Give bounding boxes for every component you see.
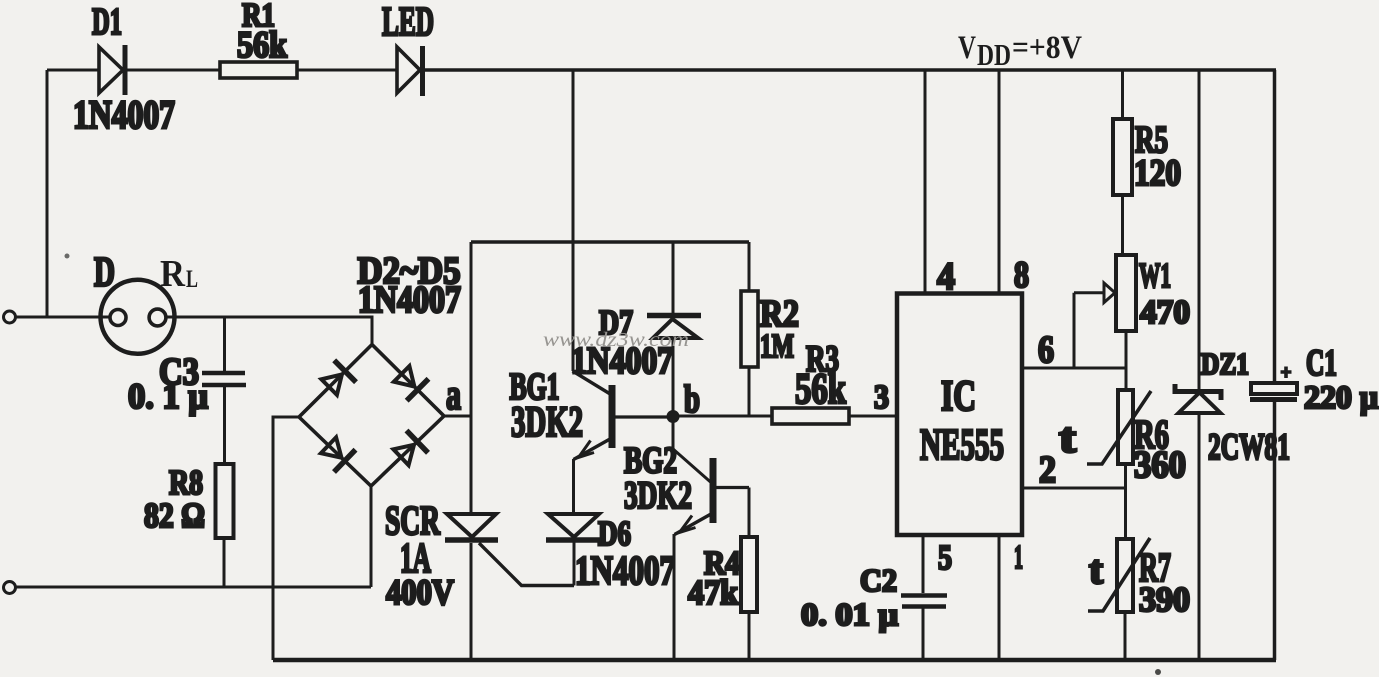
wire IC pin 1 to ground rail: [998, 535, 1001, 660]
wire R7 to ground rail: [1124, 612, 1127, 660]
IC NE555 box: [897, 294, 1022, 536]
wire DZ1 branch from VDD rail: [1198, 70, 1201, 389]
resistor R5 with leads: [1113, 70, 1132, 255]
svg-text:5: 5: [938, 538, 952, 577]
wire BG1 emitter down to D6: [572, 459, 575, 514]
svg-text:220 μ: 220 μ: [1304, 380, 1378, 416]
transistor BG2: [675, 458, 750, 535]
svg-text:3: 3: [874, 379, 889, 416]
svg-text:W1: W1: [1139, 256, 1171, 295]
resistor R2 with leads: [741, 242, 758, 416]
diode D6: [546, 514, 600, 540]
resistor R4: [741, 537, 757, 612]
svg-text:DZ1: DZ1: [1201, 346, 1249, 381]
wire C1 to ground rail: [1273, 401, 1277, 660]
wire C3 to R8: [223, 387, 226, 464]
wire BG2 emitter to ground rail: [673, 534, 676, 660]
capacitor C3: [202, 373, 246, 385]
wire node b down to BG2 collector: [673, 417, 711, 482]
wire VDD rail drop to top edge: [572, 70, 575, 242]
zener diode DZ1: [1175, 384, 1221, 413]
svg-text:V: V: [958, 30, 976, 66]
resistor R1: [220, 62, 297, 78]
svg-text:3DK2: 3DK2: [624, 474, 692, 517]
wire C1 branch from VDD rail: [1273, 70, 1277, 383]
svg-text:=+8V: =+8V: [1012, 30, 1082, 66]
wire LED to top-right corner (VDD rail): [424, 68, 1276, 72]
resistor R8: [216, 464, 234, 538]
label RL: [160, 253, 198, 295]
lower input terminal: [4, 582, 16, 594]
LED: [397, 46, 423, 96]
scan speck upper-left: [65, 254, 70, 259]
bridge diode bottom-right: [393, 431, 428, 466]
wire a-node vertical (SCR anode up to top edge): [470, 242, 473, 514]
wire R3 to IC pin 3: [849, 415, 897, 418]
wire upper terminal to socket D: [16, 316, 110, 319]
node b junction dot: [667, 410, 680, 423]
wire top edge down to BG1 collector: [572, 242, 575, 371]
svg-text:t: t: [1059, 416, 1076, 462]
wire top edge of driver box: [471, 240, 749, 243]
thermistor R6: [1087, 390, 1151, 464]
svg-text:t: t: [1089, 547, 1104, 592]
SCR: [445, 514, 574, 586]
wire R4 to ground rail: [748, 612, 751, 660]
svg-text:0. 1 μ: 0. 1 μ: [128, 376, 208, 416]
wire SCR cathode to ground rail: [470, 543, 473, 660]
svg-text:4: 4: [937, 255, 955, 298]
socket D with fuse RL: [101, 280, 175, 354]
svg-text:1N4007: 1N4007: [73, 92, 175, 137]
svg-text:R: R: [160, 253, 185, 295]
bridge diode top-right: [394, 366, 429, 401]
svg-text:1N4007: 1N4007: [575, 547, 675, 593]
wire D1 to R1: [127, 69, 220, 72]
capacitor C1 electrolytic: [1250, 367, 1297, 400]
wire R8 to lower terminal line: [223, 538, 226, 587]
svg-text:www.dz3w.com: www.dz3w.com: [543, 329, 689, 351]
svg-text:a: a: [446, 372, 461, 419]
svg-text:1: 1: [1014, 539, 1023, 576]
svg-text:470: 470: [1140, 294, 1190, 331]
wire W1 to R6: [1125, 331, 1128, 390]
svg-text:56k: 56k: [237, 25, 287, 66]
svg-text:L: L: [186, 266, 198, 293]
svg-text:120: 120: [1134, 153, 1181, 194]
wire D6 cathode to SCR gate: [573, 542, 576, 586]
wire C3 upper lead: [223, 317, 226, 371]
svg-text:NE555: NE555: [920, 420, 1004, 469]
node a wire: [444, 415, 471, 418]
transistor BG1: [573, 371, 669, 460]
potentiometer W1: [1074, 255, 1136, 368]
wire node b to R3 (through R2 tap): [679, 415, 772, 418]
svg-text:390: 390: [1139, 580, 1190, 619]
svg-text:2CW81: 2CW81: [1208, 427, 1290, 468]
svg-text:D: D: [94, 250, 115, 296]
svg-text:82 Ω: 82 Ω: [144, 496, 205, 535]
wire bridge bottom vertex to lower terminal line: [370, 486, 373, 587]
diode D7: [647, 242, 701, 412]
wire IC pin 2 to divider: [1022, 487, 1126, 490]
svg-text:C2: C2: [860, 562, 897, 598]
bridge diode top-left: [321, 360, 356, 395]
svg-text:6: 6: [1038, 329, 1054, 371]
bridge rectifier D2~D5 diamond: [299, 345, 444, 487]
svg-text:8: 8: [1014, 255, 1029, 296]
svg-text:2: 2: [1039, 449, 1056, 491]
svg-text:400V: 400V: [386, 572, 454, 612]
svg-text:IC: IC: [941, 373, 976, 420]
wire bridge left vertex to ground rail: [273, 417, 299, 660]
svg-text:56k: 56k: [795, 366, 846, 413]
wire IC pin 4 to VDD rail: [924, 70, 927, 294]
wire left vertical from top rail to upper input terminal: [46, 70, 49, 317]
wire IC pin 6 to divider: [1022, 367, 1126, 370]
wire lower terminal line: [16, 586, 371, 589]
resistor R3: [772, 408, 849, 424]
thermistor R7: [1088, 538, 1150, 612]
bridge diode bottom-left: [321, 437, 356, 472]
svg-text:1N4007: 1N4007: [358, 279, 461, 321]
scan speck below ground rail: [1155, 669, 1161, 675]
wire BG2 base to R4: [748, 488, 751, 538]
svg-text:LED: LED: [382, 0, 434, 44]
svg-text:0. 01 μ: 0. 01 μ: [801, 596, 898, 632]
wire DZ1 anode to ground rail: [1198, 413, 1201, 660]
svg-text:1M: 1M: [760, 328, 794, 365]
wire R1 to LED: [297, 69, 397, 72]
svg-text:47k: 47k: [688, 573, 738, 612]
wire top rail: corner to D1 anode: [47, 69, 99, 72]
upper input terminal: [4, 311, 16, 323]
svg-text:3DK2: 3DK2: [511, 399, 583, 446]
ground rail (bottom): [273, 658, 1276, 663]
wire IC pin 5 to C2: [922, 535, 925, 593]
label VDD=+8V: [958, 30, 1082, 72]
wire IC pin 8 to VDD rail: [998, 70, 1001, 295]
svg-text:DD: DD: [977, 37, 1011, 72]
diode D1: [99, 45, 125, 95]
svg-text:D1: D1: [92, 1, 122, 43]
wire C2 to ground rail: [922, 608, 925, 660]
svg-text:C1: C1: [1306, 343, 1337, 384]
wire R6 to R7: [1124, 464, 1127, 539]
wire socket to bridge top vertex: [165, 317, 372, 345]
capacitor C2: [901, 596, 947, 607]
svg-text:360: 360: [1134, 444, 1186, 486]
